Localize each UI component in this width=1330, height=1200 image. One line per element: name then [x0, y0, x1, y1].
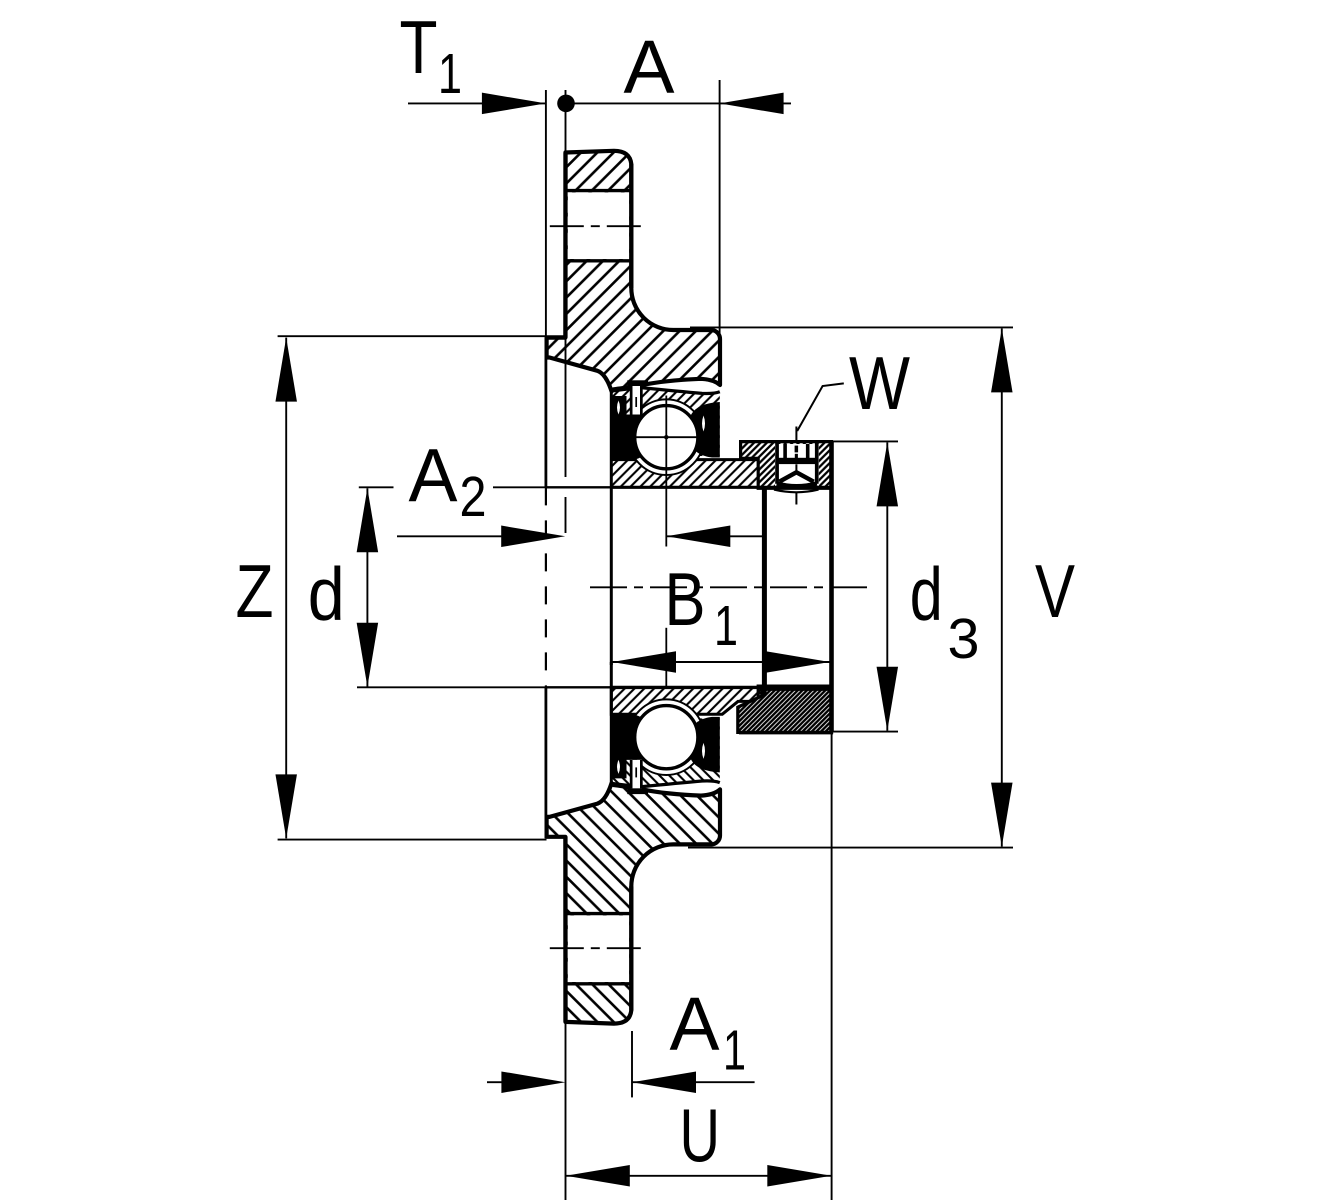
svg-text:2: 2 — [460, 465, 487, 529]
U dimension — [566, 1175, 832, 1177]
Z dimension — [285, 338, 287, 839]
main bore lines (diameter d) — [546, 486, 611, 488]
svg-text:1: 1 — [438, 42, 462, 106]
bearing insert bottom (mirrored) — [611, 686, 831, 794]
svg-text:A: A — [624, 25, 675, 109]
svg-text:Z: Z — [236, 549, 274, 633]
main axis centerline — [590, 586, 871, 588]
svg-text:d: d — [910, 552, 943, 636]
inner ring lower band (stepped for eccentric collar recess) — [611, 688, 762, 715]
inner ring faces — [610, 390, 613, 666]
flange face extension lines x=565.5 — [565, 90, 567, 153]
housing bottom section (mirrored) — [547, 783, 720, 1024]
boss back face line (solid / hidden dashes through bore) — [545, 338, 548, 488]
svg-text:1: 1 — [714, 594, 738, 658]
svg-text:T: T — [400, 5, 438, 89]
svg-text:1: 1 — [723, 1019, 746, 1083]
bearing insert top — [611, 380, 831, 488]
housing top section — [547, 151, 720, 392]
W label and leader — [797, 383, 844, 431]
A2 dimension — [397, 535, 510, 537]
B1 dimension — [612, 661, 830, 663]
svg-text:U: U — [680, 1094, 721, 1178]
bearing vertical centerlines — [665, 396, 667, 547]
bottom collar dense section — [738, 689, 832, 732]
svg-text:d: d — [308, 552, 345, 636]
d3 dimension — [886, 442, 888, 730]
svg-text:V: V — [1035, 549, 1075, 633]
datum dot — [557, 95, 575, 113]
ball crosshairs — [624, 436, 710, 438]
A1 dimension — [487, 1081, 503, 1083]
d dimension — [366, 488, 368, 687]
inner ring upper band — [611, 460, 758, 488]
svg-text:W: W — [849, 341, 910, 425]
A dimension — [566, 102, 791, 104]
svg-text:B: B — [665, 557, 706, 641]
set screw W (top collar only) — [774, 427, 819, 505]
V dimension — [1001, 328, 1003, 846]
extension line x=545.9 above — [545, 90, 547, 338]
T1 dimension — [408, 102, 546, 104]
svg-text:A: A — [670, 982, 720, 1066]
svg-text:A: A — [409, 433, 458, 517]
svg-text:3: 3 — [948, 607, 980, 671]
collar right face + extension — [829, 442, 834, 732]
extension line x=719.6 — [719, 80, 721, 336]
A1 right extension — [631, 1031, 633, 1097]
